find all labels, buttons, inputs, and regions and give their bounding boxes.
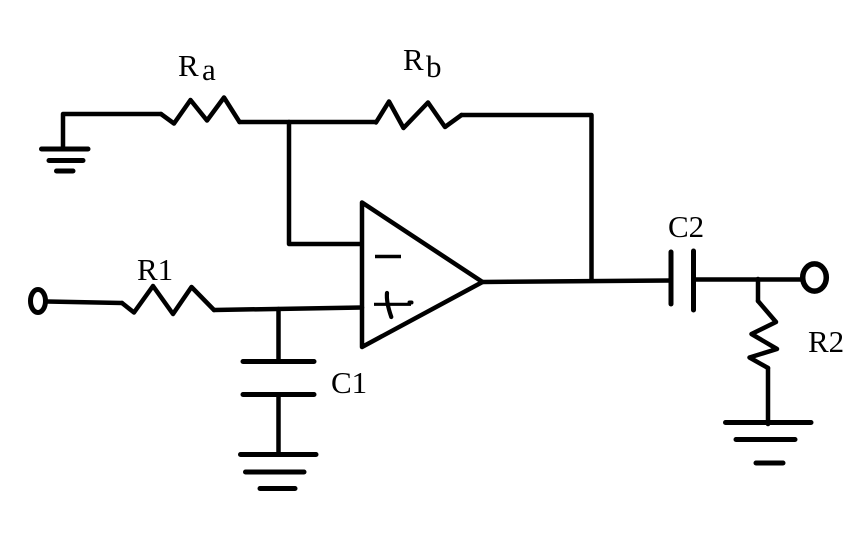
wire C2 to output terminal	[696, 277, 801, 282]
wire Rb to output node	[462, 115, 592, 279]
input terminal	[31, 290, 46, 313]
wire node to R2	[756, 279, 761, 301]
op-amp minus label	[375, 255, 401, 259]
svg-text:R: R	[403, 42, 424, 77]
wire R2 to ground	[766, 368, 771, 424]
output terminal	[803, 264, 827, 291]
svg-text:a: a	[202, 52, 216, 87]
svg-text:R2: R2	[808, 324, 844, 359]
op-amp plus label	[374, 303, 411, 306]
svg-text:R1: R1	[137, 252, 173, 287]
ground GND2 (below C1)	[241, 455, 317, 489]
svg-text:b: b	[426, 49, 442, 84]
svg-text:C1: C1	[331, 365, 367, 400]
resistor R2	[750, 301, 778, 368]
svg-text:R: R	[178, 48, 199, 83]
capacitor C1	[276, 309, 281, 362]
resistor Ra	[161, 98, 240, 124]
svg-text:C2: C2	[668, 209, 704, 244]
ground GND1 (left of Ra)	[42, 149, 89, 171]
op-amp U1	[362, 203, 483, 348]
ground GND3 (below R2)	[726, 423, 812, 464]
wire input terminal to R1	[47, 302, 122, 304]
wire Ra to Rb	[240, 120, 377, 125]
resistor R1	[122, 286, 214, 314]
wire op-amp output to C2	[483, 281, 672, 283]
wire ground to Ra	[63, 114, 161, 148]
wire node to inverting input	[289, 122, 361, 244]
wire R1 to non-inverting input	[214, 308, 362, 311]
capacitor C2	[669, 252, 674, 304]
resistor Rb	[376, 102, 462, 129]
